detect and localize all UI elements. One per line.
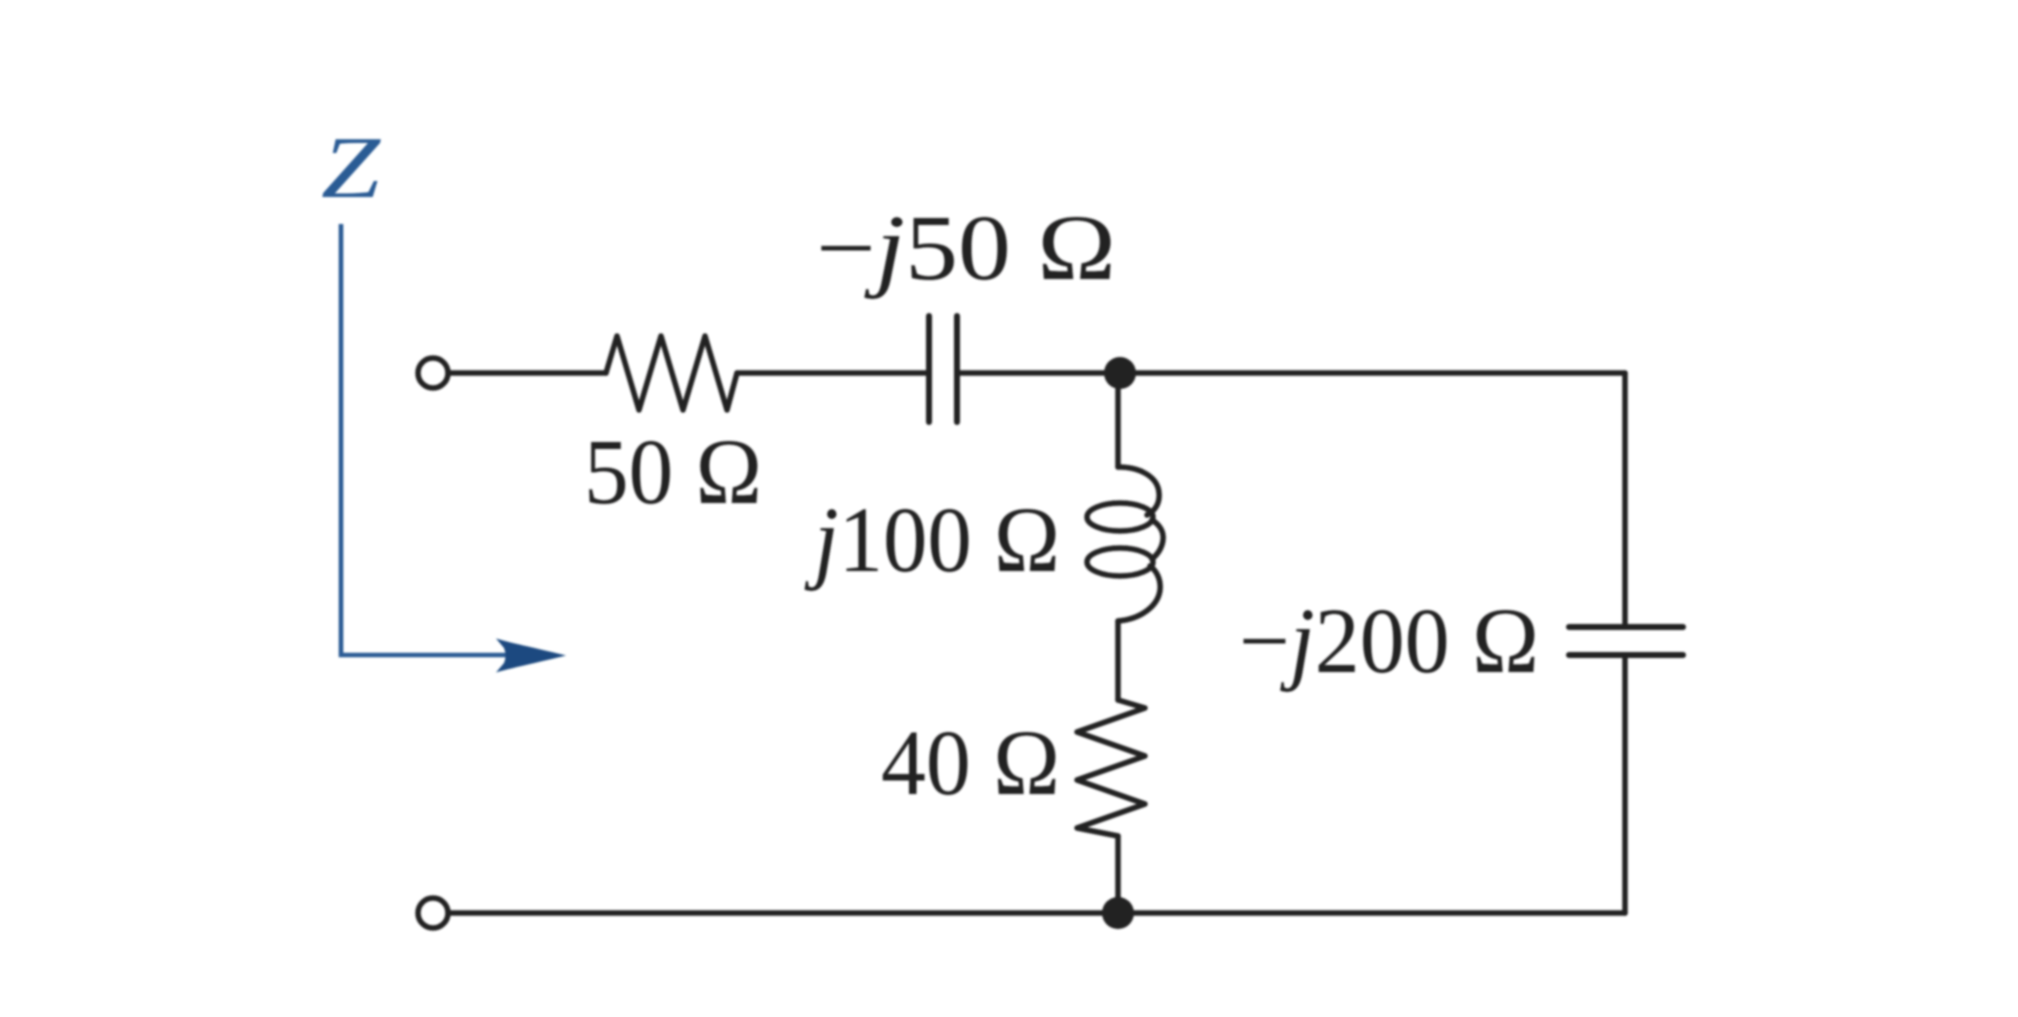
svg-text:40 Ω: 40 Ω bbox=[881, 712, 1060, 815]
svg-text:Z: Z bbox=[321, 120, 381, 217]
svg-text:−j200 Ω: −j200 Ω bbox=[1239, 590, 1539, 693]
svg-text:j100 Ω: j100 Ω bbox=[804, 489, 1060, 592]
svg-text:−j50 Ω: −j50 Ω bbox=[816, 197, 1116, 300]
svg-text:50 Ω: 50 Ω bbox=[584, 421, 762, 524]
